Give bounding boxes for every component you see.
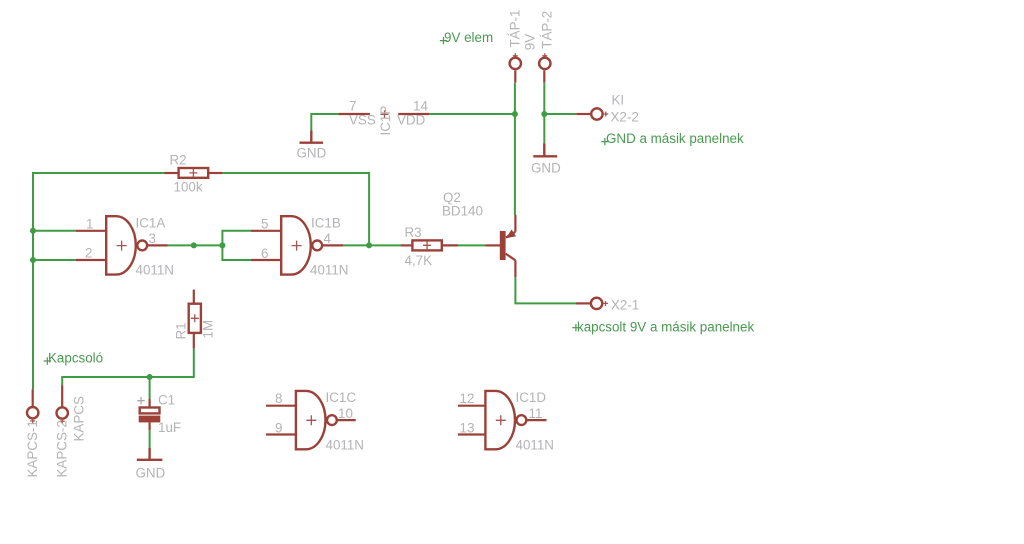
wire R2 left to KAPCS-1 rail xyxy=(33,173,165,389)
svg-text:KAPCS: KAPCS xyxy=(72,396,87,441)
svg-text:4011N: 4011N xyxy=(326,437,364,452)
svg-text:IC1A: IC1A xyxy=(136,215,166,230)
svg-text:14: 14 xyxy=(413,99,428,114)
wire R2 right feedback xyxy=(222,173,369,245)
svg-text:KAPCS-1: KAPCS-1 xyxy=(25,420,40,477)
svg-text:8: 8 xyxy=(275,391,282,406)
svg-text:4011N: 4011N xyxy=(310,263,348,278)
ground symbol GND right xyxy=(533,143,557,156)
pin 14 VDD of IC1P xyxy=(398,113,429,115)
svg-text:IC1B: IC1B xyxy=(311,215,341,230)
wire R1 down to switch net xyxy=(62,349,194,386)
svg-text:IC1C: IC1C xyxy=(326,390,357,405)
svg-text:GND: GND xyxy=(297,146,327,161)
wire R3 to Q2 base xyxy=(458,244,486,246)
svg-text:4011N: 4011N xyxy=(136,262,174,277)
svg-text:C1: C1 xyxy=(158,392,175,407)
svg-text:IC1D: IC1D xyxy=(516,390,547,405)
junction C1 tap xyxy=(147,374,153,380)
svg-text:3: 3 xyxy=(149,231,156,246)
svg-text:4,7K: 4,7K xyxy=(405,253,433,268)
svg-text:13: 13 xyxy=(460,420,475,435)
svg-text:R3: R3 xyxy=(405,225,422,240)
connector TAP-2 xyxy=(542,53,547,58)
resistor R3 xyxy=(401,244,413,246)
junction 9V/VDD xyxy=(512,111,518,117)
junction R1 tap xyxy=(191,242,197,248)
svg-text:1M: 1M xyxy=(201,320,216,339)
connector TAP-1 xyxy=(513,53,518,58)
NAND gate IC1C (4011N) xyxy=(266,390,364,452)
wire IC1B input tee xyxy=(222,231,251,260)
wire TAP-2 down to GND xyxy=(543,83,545,144)
svg-text:GND a másik panelnek: GND a másik panelnek xyxy=(606,131,744,146)
label kapcsolt 9V a masik panelnek xyxy=(572,324,579,331)
wire IC1A out to IC1B tee xyxy=(168,244,223,246)
connector X2-2 xyxy=(576,113,590,115)
wire TAP-1 to emitter rail xyxy=(514,83,516,215)
svg-text:1: 1 xyxy=(86,216,93,231)
svg-text:kapcsolt 9V a másik panelnek: kapcsolt 9V a másik panelnek xyxy=(577,320,754,335)
svg-text:11: 11 xyxy=(529,406,543,421)
wire Q2 collector to X2-1 xyxy=(515,277,576,303)
transistor Q2 xyxy=(442,190,516,277)
svg-text:Kapcsoló: Kapcsoló xyxy=(48,351,103,366)
svg-text:R1: R1 xyxy=(174,322,189,339)
svg-text:R2: R2 xyxy=(170,152,187,167)
wire IC1B out to R3 xyxy=(343,244,400,246)
junction IC1B tee xyxy=(219,242,225,248)
wire IC1A pin2 stub xyxy=(33,259,76,261)
power gate IC1P origin cross xyxy=(381,110,389,118)
junction R2 feedback tap xyxy=(366,242,372,248)
junction pin2 xyxy=(30,257,36,263)
label 9V elem xyxy=(440,37,447,44)
wire VSS pin to GND xyxy=(311,114,339,131)
svg-text:GND: GND xyxy=(531,161,561,176)
resistor R2 xyxy=(165,172,179,174)
svg-text:TÁP-2: TÁP-2 xyxy=(539,11,554,49)
svg-text:10: 10 xyxy=(338,406,353,421)
svg-text:KAPCS-2: KAPCS-2 xyxy=(55,420,70,477)
wire GND net to X2-2 xyxy=(544,113,576,115)
junction GND net xyxy=(541,111,547,117)
connector KAPCS-2 xyxy=(61,385,63,406)
svg-text:7: 7 xyxy=(349,99,356,114)
svg-text:4: 4 xyxy=(324,231,332,246)
ground symbol GND left xyxy=(300,131,324,143)
svg-text:100k: 100k xyxy=(174,179,203,194)
svg-text:BD140: BD140 xyxy=(442,203,483,218)
svg-text:GND: GND xyxy=(136,465,166,480)
svg-text:VSS: VSS xyxy=(349,113,376,128)
svg-text:IC1P: IC1P xyxy=(378,106,393,136)
label GND a masik panelnek xyxy=(601,138,608,145)
svg-text:X2-1: X2-1 xyxy=(611,297,639,312)
svg-text:6: 6 xyxy=(261,246,268,261)
NAND gate IC1D (4011N) xyxy=(458,390,554,452)
svg-text:9V elem: 9V elem xyxy=(444,30,493,45)
resistor R1 xyxy=(193,290,195,304)
svg-text:2: 2 xyxy=(85,246,92,261)
pin 7 VSS of IC1P xyxy=(339,113,370,115)
svg-text:VDD: VDD xyxy=(397,113,426,128)
svg-text:KI: KI xyxy=(612,93,625,108)
svg-text:TÁP-1: TÁP-1 xyxy=(508,10,523,48)
wire VDD to TAP-1 xyxy=(429,113,515,115)
svg-text:5: 5 xyxy=(261,216,268,231)
label Kapcsolo xyxy=(44,357,51,364)
svg-text:9: 9 xyxy=(275,420,282,435)
wire C1 to GND xyxy=(149,430,151,448)
svg-text:9V: 9V xyxy=(523,34,538,50)
connector X2-1 xyxy=(576,302,590,304)
NAND gate IC1A (4011N) xyxy=(76,215,174,277)
wire IC1A pin1 stub xyxy=(33,230,76,232)
NAND gate IC1B (4011N) xyxy=(251,215,348,277)
ground symbol GND under C1 xyxy=(137,448,163,460)
svg-text:X2-2: X2-2 xyxy=(611,109,639,124)
svg-text:12: 12 xyxy=(460,391,475,406)
capacitor C1 xyxy=(149,377,151,399)
connector KAPCS-1 xyxy=(32,389,34,406)
svg-text:1uF: 1uF xyxy=(158,420,181,435)
svg-text:4011N: 4011N xyxy=(516,437,554,452)
junction pin1 xyxy=(30,228,36,234)
